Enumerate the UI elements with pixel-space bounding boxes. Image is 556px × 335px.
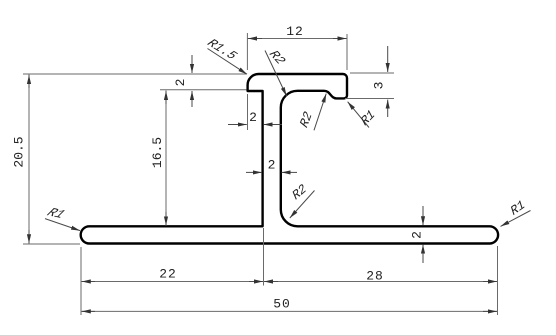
dim 2 head thickness top arrow [191, 55, 193, 73]
dim 3 top arrow [387, 46, 389, 72]
dimension 12 line [247, 38, 347, 40]
extension line flange bottom left (y=244) [23, 243, 80, 245]
dim 50 left arrow [82, 310, 95, 312]
leader R1 lip [348, 102, 369, 128]
dim 2 web left arrow [246, 171, 262, 173]
dim 50 right arrow [483, 310, 497, 312]
svg-text:2: 2 [173, 79, 188, 87]
leader R1 right end [501, 211, 531, 227]
extension line flange left end below (x=81) [80, 247, 82, 315]
dim 50 line [81, 310, 498, 312]
extension line head top left (y=74) [23, 73, 246, 75]
profile outline [81, 74, 498, 244]
dim 16.5 top arrow [165, 91, 167, 104]
leader R2 top [265, 51, 287, 97]
dim 22 right arrow [249, 281, 263, 283]
svg-text:R2: R2 [290, 181, 309, 203]
dim 2 overhang right arrow [264, 124, 282, 126]
svg-text:R1.5: R1.5 [204, 36, 241, 62]
extension line head underside left (y=89.7) [160, 89, 247, 91]
svg-text:3: 3 [371, 82, 386, 90]
leader R2 notch [314, 94, 326, 131]
svg-text:50: 50 [273, 297, 291, 312]
svg-text:22: 22 [159, 267, 177, 282]
extension line head-left vertical (for dim 12) [246, 33, 248, 70]
extension line head-right vertical (for dim 12) [346, 34, 348, 70]
svg-text:28: 28 [366, 269, 384, 284]
dim 2 flange bottom arrow [422, 245, 424, 263]
leader R1.5 [208, 49, 248, 75]
dim 22 left arrow [82, 281, 95, 283]
svg-text:R1: R1 [509, 198, 528, 219]
dim 16.5 bottom arrow [165, 212, 167, 225]
dim 20.5 bottom arrow [28, 230, 30, 243]
dimension 12 right arrow [333, 38, 346, 40]
leader R1 left end [45, 219, 80, 231]
extension line web-left below (x=263.5) [263, 228, 265, 286]
dim 3 bottom arrow [387, 100, 389, 117]
extension line flange right end below (x=497.5) [497, 246, 499, 315]
dimension 12 left arrow [248, 38, 262, 40]
dim 20.5 top arrow [28, 75, 30, 88]
dim 2 head thickness bottom arrow [191, 91, 193, 107]
dim 2 web right arrow [282, 171, 297, 173]
dim 20.5 line [28, 75, 30, 244]
svg-text:20.5: 20.5 [11, 136, 26, 167]
leader R2 bottom fillet [290, 191, 315, 219]
dim 28 right arrow [483, 281, 497, 283]
svg-text:16.5: 16.5 [150, 137, 165, 168]
dim 2 flange top arrow [422, 206, 424, 225]
svg-text:R1: R1 [359, 107, 378, 129]
svg-text:R1: R1 [44, 206, 68, 221]
dim 28 line [264, 281, 498, 283]
dim 16.5 line [165, 91, 167, 226]
svg-text:R2: R2 [266, 48, 290, 67]
svg-text:2: 2 [409, 231, 424, 239]
svg-text:2: 2 [249, 110, 257, 125]
dim 28 left arrow [264, 281, 278, 283]
svg-text:12: 12 [286, 24, 304, 39]
svg-text:2: 2 [268, 158, 276, 173]
dim 2 overhang left arrow [228, 124, 247, 126]
svg-text:R2: R2 [298, 109, 316, 130]
dim 22 line [81, 281, 264, 283]
extension line head-left edge below (x=247.5) [247, 94, 249, 130]
extension line lip bottom right (y=98.5) [345, 98, 394, 100]
extension line head top right (y=72.5) [350, 72, 394, 74]
